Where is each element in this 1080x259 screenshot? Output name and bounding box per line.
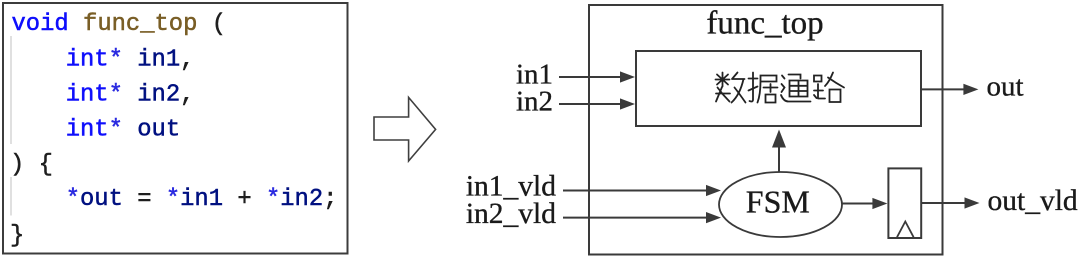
svg-text:out: out xyxy=(987,70,1024,102)
svg-text:}: } xyxy=(10,223,24,250)
svg-text:in2_vld: in2_vld xyxy=(466,198,556,230)
svg-text:) {: ) { xyxy=(10,152,53,179)
svg-text:*out = *in1 + *in2;: *out = *in1 + *in2; xyxy=(66,186,338,213)
svg-text:int* in1,: int* in1, xyxy=(66,47,195,74)
svg-text:out_vld: out_vld xyxy=(988,185,1078,217)
svg-text:in2: in2 xyxy=(516,86,553,118)
svg-text:func_top: func_top xyxy=(706,6,823,42)
svg-text:FSM: FSM xyxy=(746,184,810,220)
svg-text:int* in2,: int* in2, xyxy=(66,82,195,109)
svg-text:void func_top (: void func_top ( xyxy=(12,11,227,38)
svg-text:int* out: int* out xyxy=(66,117,180,144)
